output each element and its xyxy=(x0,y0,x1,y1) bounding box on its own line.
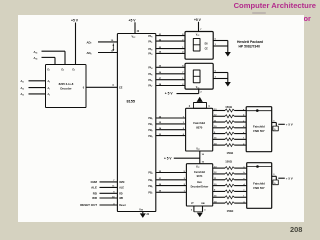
svg-text:20: 20 xyxy=(147,214,150,216)
wire PA4 to display DS2 xyxy=(148,66,185,70)
decoder/driver U4 Fairchild 9374 xyxy=(186,164,212,206)
svg-text:RD: RD xyxy=(119,192,123,195)
signal RESET OUT to 8155 xyxy=(80,203,126,207)
svg-text:VCC: VCC xyxy=(196,87,200,89)
signal RD to 8155 xyxy=(93,191,123,195)
svg-text:9370: 9370 xyxy=(196,125,203,129)
label Hewlett Packard xyxy=(237,40,263,49)
svg-text:8205 3-to-8: 8205 3-to-8 xyxy=(59,82,74,86)
svg-text:Reset: Reset xyxy=(119,204,126,207)
svg-text:+5 V: +5 V xyxy=(194,18,202,22)
wire resistor R6 to FND1 xyxy=(234,138,246,140)
power +5V (display DS1) xyxy=(194,18,202,22)
slide title xyxy=(0,1,316,10)
ground (8155 Vss) xyxy=(140,213,146,218)
wire U3 segment f pin 15 xyxy=(213,138,225,140)
wire DS3 common anode to +5V xyxy=(272,120,285,131)
wire U3 segment e pin 9 xyxy=(213,132,225,134)
bus range arrow xyxy=(112,44,114,52)
signal IO/M to 8155 xyxy=(91,180,125,184)
svg-text:AD0: AD0 xyxy=(86,51,91,56)
resistor R4 150ohm xyxy=(225,126,234,129)
svg-text:FND 507: FND 507 xyxy=(253,129,265,133)
svg-text:PB6: PB6 xyxy=(148,185,152,189)
svg-text:A1: A1 xyxy=(48,87,51,90)
svg-text:Hewlett Packard: Hewlett Packard xyxy=(237,40,263,44)
svg-text:A12: A12 xyxy=(21,87,25,91)
svg-text:PA7: PA7 xyxy=(148,85,152,89)
decimal point marker DS4 xyxy=(256,165,259,168)
power +5V (DS2 Vcc) xyxy=(165,92,174,96)
decimal point marker DS3 xyxy=(256,109,259,112)
power +5V (DS4) xyxy=(286,177,293,181)
svg-text:Fairchild: Fairchild xyxy=(194,170,205,174)
resistor R6 150ohm xyxy=(225,138,234,141)
svg-text:0: 0 xyxy=(83,86,85,89)
svg-text:E3: E3 xyxy=(73,69,76,71)
wire PB3 to U3 xyxy=(148,134,185,138)
wire resistor R11 to FND2 xyxy=(234,184,246,186)
display DS3 Fairchild FND 507 xyxy=(246,107,272,152)
wire resistor R3 to FND1 xyxy=(234,120,246,122)
wire A11 xyxy=(29,80,46,82)
wire +5V to decoder E3 xyxy=(75,23,77,65)
power +5V (U3/U4 Vcc) xyxy=(164,156,172,160)
wire PA1 to display DS1 xyxy=(148,39,185,43)
svg-text:HP 5082/7340: HP 5082/7340 xyxy=(239,45,261,49)
label 150 ohm (bank2 top) xyxy=(225,159,233,163)
node A11 label xyxy=(21,80,25,84)
svg-text:2: 2 xyxy=(200,92,202,94)
svg-text:Hex: Hex xyxy=(197,180,202,184)
svg-text:9374: 9374 xyxy=(197,174,203,178)
svg-text:Fairchild: Fairchild xyxy=(253,182,265,186)
wire A14 to decoder xyxy=(42,57,56,64)
svg-text:PA6: PA6 xyxy=(148,79,152,83)
wire PB7 to U4 xyxy=(148,191,186,195)
svg-text:PA2: PA2 xyxy=(148,48,152,52)
wire PA5 to display DS2 xyxy=(148,72,185,76)
decoder U1 8205 3-to-8 xyxy=(46,65,87,108)
svg-text:+5 V: +5 V xyxy=(71,19,79,23)
wire U4 segment g pin 14 xyxy=(213,200,225,203)
resistor R3 150ohm xyxy=(225,121,234,124)
svg-text:VCC: VCC xyxy=(132,36,137,39)
wire U4 segment c pin 11 xyxy=(213,178,225,180)
wire AD bus line pin 19 xyxy=(86,40,117,45)
svg-text:E1: E1 xyxy=(48,69,51,71)
subtitle fragment "or" xyxy=(304,14,311,23)
wire resistor R9 to FND2 xyxy=(234,172,246,174)
svg-text:Fairchild: Fairchild xyxy=(253,125,265,129)
wire DS1 enable stubs to ground xyxy=(213,39,228,52)
svg-text:150Ω: 150Ω xyxy=(227,151,235,155)
resistor R1 150ohm xyxy=(225,109,234,112)
IC U2 8155 xyxy=(117,34,155,212)
svg-text:D8: D8 xyxy=(205,44,209,46)
svg-text:WR: WR xyxy=(119,197,123,200)
wire AD bus line pin 12 xyxy=(86,51,117,56)
seven-segment digit DS2 xyxy=(193,70,200,83)
svg-text:+ 5 V: + 5 V xyxy=(286,177,293,181)
svg-text:Decoder: Decoder xyxy=(60,87,72,91)
svg-text:PA5: PA5 xyxy=(148,73,152,77)
svg-text:PB0: PB0 xyxy=(148,117,152,121)
svg-text:A0: A0 xyxy=(48,80,51,83)
wire U4 segment a pin 13 xyxy=(213,166,225,168)
ground (U4) xyxy=(197,213,203,218)
wire PB0 to U3 xyxy=(148,116,185,120)
wire U4 LT/RBI stubs xyxy=(191,206,206,212)
wire resistor R14 to FND2 xyxy=(234,201,246,203)
svg-text:+5 V: +5 V xyxy=(129,18,137,22)
resistor R2 150ohm xyxy=(225,115,234,118)
svg-text:AD7: AD7 xyxy=(86,40,91,45)
wire DS4 common anode to +5V xyxy=(272,174,285,185)
arrow +5V on U3 jumper xyxy=(197,97,203,102)
svg-text:PA4: PA4 xyxy=(148,67,152,71)
resistor R5 150ohm xyxy=(225,132,234,135)
wire U4 segment d pin 10 xyxy=(213,184,225,186)
wire resistor R8 to FND2 xyxy=(234,166,246,168)
svg-text:CE: CE xyxy=(205,48,209,50)
wire PA3 to display DS1 xyxy=(148,51,185,56)
seven-segment digit DS1 xyxy=(193,39,200,52)
wire resistor R12 to FND2 xyxy=(234,190,246,192)
svg-text:CE: CE xyxy=(119,87,123,90)
node A15 label xyxy=(34,50,38,55)
svg-text:8155: 8155 xyxy=(127,100,136,104)
power +5V (decoder) xyxy=(71,19,79,23)
resistor R13 150ohm xyxy=(225,196,234,199)
svg-text:Decoder/Driver: Decoder/Driver xyxy=(191,185,209,188)
svg-text:VCC: VCC xyxy=(196,35,200,37)
wire PA6 to display DS2 xyxy=(148,78,185,82)
svg-text:RESET OUT: RESET OUT xyxy=(80,203,97,207)
power +5V (8155) xyxy=(129,18,137,22)
resistor R12 150ohm xyxy=(225,190,234,193)
node A13 label xyxy=(21,93,25,97)
svg-text:PB2: PB2 xyxy=(148,129,152,133)
wire resistor R4 to FND1 xyxy=(234,126,246,128)
label 150 ohm (bank1 bottom) xyxy=(227,151,235,155)
wire PA0 to display DS1 xyxy=(148,34,185,38)
svg-text:A11: A11 xyxy=(21,80,25,84)
display DS4 Fairchild FND 507 xyxy=(247,163,272,209)
svg-text:A14: A14 xyxy=(34,56,38,61)
svg-text:PA3: PA3 xyxy=(148,53,152,57)
wire U4 segment f pin 15 xyxy=(213,196,225,198)
wire U3 segment b pin 12 xyxy=(213,115,225,117)
wire resistor R1 to FND1 xyxy=(234,109,246,111)
svg-text:150Ω: 150Ω xyxy=(225,159,233,163)
label 150 ohm (bank2 bottom) xyxy=(227,209,235,213)
display DS2 HP 5082/7340 xyxy=(185,63,213,89)
wire U3 segment c pin 11 xyxy=(213,120,225,122)
wire PB6 to U4 xyxy=(148,184,186,188)
ground (DS2) xyxy=(225,82,231,87)
node A12 label xyxy=(21,87,25,91)
svg-text:LT: LT xyxy=(191,203,194,205)
svg-text:RD: RD xyxy=(93,191,97,195)
resistor R14 150ohm xyxy=(225,202,234,205)
decoder/driver U3 Fairchild 9370 xyxy=(186,108,213,151)
label 150 ohm (bank1 top) xyxy=(225,105,233,109)
svg-text:+ 5 V: + 5 V xyxy=(165,92,174,96)
wire resistor R5 to FND1 xyxy=(234,132,246,134)
signal WR to 8155 xyxy=(92,196,123,200)
svg-text:VSS: VSS xyxy=(139,208,143,211)
svg-text:FND 507: FND 507 xyxy=(253,186,265,190)
svg-text:E2: E2 xyxy=(62,69,65,71)
node A14 label xyxy=(34,56,38,61)
svg-text:PB1: PB1 xyxy=(148,123,152,127)
wire +5V to DS1 Vcc pin 7 xyxy=(199,22,203,32)
resistor R10 150ohm xyxy=(225,178,234,181)
scanned schematic paper xyxy=(18,15,304,222)
wire +5V to 8155 Vcc pin 40 xyxy=(135,22,140,33)
wire PB5 to U4 xyxy=(148,178,186,182)
svg-text:+ 5 V: + 5 V xyxy=(286,123,293,127)
display DS1 HP 5082/7340 xyxy=(185,32,213,60)
ground (DS1) xyxy=(225,52,231,57)
svg-text:3: 3 xyxy=(189,106,191,108)
wire U4 segment b pin 12 xyxy=(213,172,225,174)
resistor R11 150ohm xyxy=(225,184,234,187)
wire 8155 Vss pin 20 xyxy=(143,212,150,217)
wire U3 Vcc pin 16 chain xyxy=(200,151,205,164)
wire A12 xyxy=(29,87,46,89)
resistor R8 150ohm xyxy=(225,167,234,170)
svg-text:VCC: VCC xyxy=(196,149,200,151)
svg-text:150Ω: 150Ω xyxy=(227,209,235,213)
svg-text:RBI: RBI xyxy=(201,203,205,205)
wire resistor R13 to FND2 xyxy=(234,196,246,198)
svg-text:PB3: PB3 xyxy=(148,135,152,139)
svg-text:5: 5 xyxy=(191,209,193,211)
power +5V (DS3) xyxy=(286,123,293,127)
wire PB2 to U3 xyxy=(148,127,185,132)
partially hidden subtitle remnant xyxy=(252,12,266,14)
page number xyxy=(290,225,302,234)
svg-text:PB5: PB5 xyxy=(148,179,152,183)
wire PB4 to U4 xyxy=(148,171,186,175)
wire +5V to DS2 Vcc xyxy=(177,89,203,94)
wire PA2 to display DS1 xyxy=(148,47,185,51)
signal ALE to 8155 xyxy=(91,186,124,190)
wire A15 to decoder xyxy=(42,51,66,64)
svg-text:A15: A15 xyxy=(34,50,38,55)
svg-text:PA1: PA1 xyxy=(148,40,152,44)
svg-text:16: 16 xyxy=(202,154,205,156)
svg-text:IO/M: IO/M xyxy=(91,180,98,184)
wire PB1 to U3 xyxy=(148,122,185,126)
wire resistor R7 to FND1 xyxy=(234,143,246,145)
resistor R7 150ohm xyxy=(225,144,234,147)
svg-text:A2: A2 xyxy=(48,93,51,96)
wire decoder output 0 to 8155 CE xyxy=(86,85,117,87)
resistor R9 150ohm xyxy=(225,172,234,175)
svg-text:A13: A13 xyxy=(21,93,25,97)
jumper pins 3-4 on U3 top xyxy=(189,103,211,109)
wire U3 segment a pin 13 xyxy=(213,109,225,111)
wire DS2 enable stubs to ground xyxy=(213,71,228,82)
svg-text:ALE: ALE xyxy=(91,186,97,190)
svg-text:PB7: PB7 xyxy=(148,192,152,196)
wire PA7 to display DS2 xyxy=(148,84,185,88)
wire U3 segment d pin 10 xyxy=(213,126,225,128)
svg-text:40: 40 xyxy=(137,30,140,33)
wire U4 segment e pin 9 xyxy=(213,190,225,192)
svg-text:150Ω: 150Ω xyxy=(225,105,233,109)
wire resistor R10 to FND2 xyxy=(234,178,246,180)
wire A13 xyxy=(29,93,46,95)
svg-text:4: 4 xyxy=(208,105,210,108)
wire U3 segment g pin 14 xyxy=(213,142,225,145)
svg-text:IO/M: IO/M xyxy=(119,181,124,184)
svg-text:VCC: VCC xyxy=(196,167,200,169)
svg-text:3: 3 xyxy=(204,209,206,211)
svg-text:WR: WR xyxy=(92,196,98,200)
wire resistor R2 to FND1 xyxy=(234,115,246,117)
svg-text:PB4: PB4 xyxy=(148,172,152,176)
wire +5V to Vcc chain xyxy=(174,157,200,159)
svg-text:ALE: ALE xyxy=(119,187,124,190)
svg-text:+ 5 V: + 5 V xyxy=(164,156,172,160)
svg-text:PA0: PA0 xyxy=(148,35,152,39)
